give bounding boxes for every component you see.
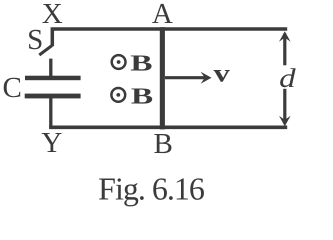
capacitor C bottom plate <box>25 94 81 99</box>
svg-text:B: B <box>130 51 152 76</box>
svg-text:d: d <box>279 63 296 93</box>
svg-text:Y: Y <box>41 127 62 159</box>
svg-text:B: B <box>131 83 153 108</box>
svg-text:X: X <box>42 0 63 30</box>
field symbol B out of page (lower circle-dot) <box>111 88 125 102</box>
svg-text:B: B <box>154 128 173 160</box>
switch S blade <box>39 46 52 56</box>
wire bottom rail Y to B to right end <box>49 126 287 130</box>
wire switch lower terminal to capacitor top plate <box>49 59 52 77</box>
velocity arrow v <box>165 72 212 84</box>
field symbol B out of page (upper circle-dot) <box>112 55 126 69</box>
dimension arrow d double-headed <box>279 31 291 126</box>
wire capacitor bottom plate to bottom-left corner Y <box>49 98 52 127</box>
svg-text:A: A <box>152 0 173 30</box>
svg-text:v: v <box>213 61 230 88</box>
capacitor C top plate <box>25 76 81 81</box>
rod AB moving conductor <box>160 27 165 129</box>
wire top rail X to A to right end <box>52 29 287 46</box>
svg-text:Fig. 6.16: Fig. 6.16 <box>98 171 205 207</box>
svg-text:C: C <box>3 72 22 104</box>
